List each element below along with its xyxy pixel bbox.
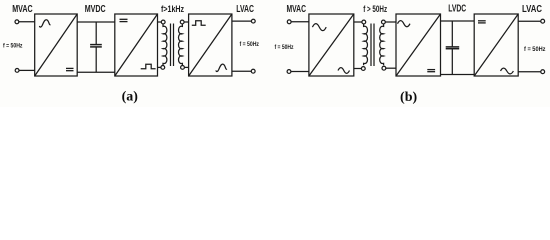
svg-text:MVAC: MVAC xyxy=(287,4,307,15)
svg-text:f = 50Hz: f = 50Hz xyxy=(275,44,294,51)
svg-text:LVAC: LVAC xyxy=(236,4,254,15)
svg-text:f = 50Hz: f = 50Hz xyxy=(524,46,546,53)
svg-text:LVDC: LVDC xyxy=(448,4,466,15)
svg-text:LVAC: LVAC xyxy=(522,4,542,15)
svg-text:f>1kHz: f>1kHz xyxy=(161,4,185,14)
svg-text:(a): (a) xyxy=(122,89,139,104)
svg-text:f = 50Hz: f = 50Hz xyxy=(240,41,260,48)
svg-text:MVAC: MVAC xyxy=(12,4,33,15)
svg-text:MVDC: MVDC xyxy=(85,4,106,15)
svg-text:(b): (b) xyxy=(400,90,417,105)
svg-text:f > 50Hz: f > 50Hz xyxy=(363,4,387,14)
svg-text:f = 50Hz: f = 50Hz xyxy=(3,43,23,50)
